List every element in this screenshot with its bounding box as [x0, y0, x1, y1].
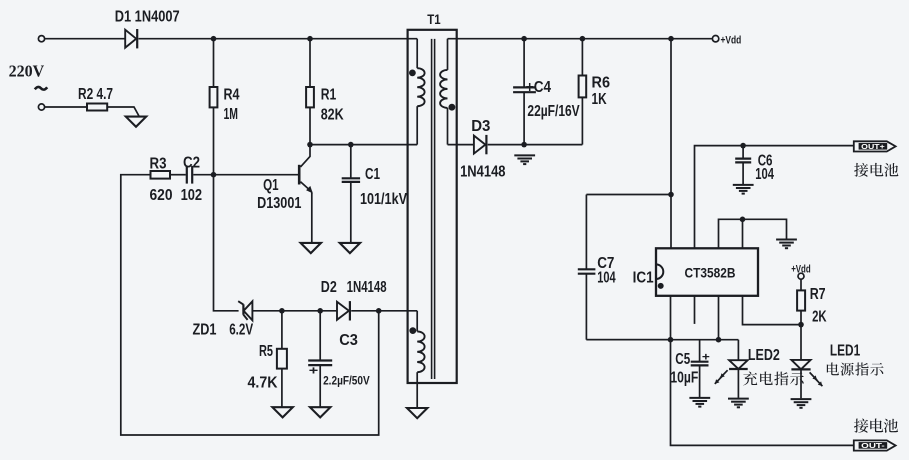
node junction IC gnd link [740, 217, 746, 223]
node junction R5 tap [279, 308, 285, 314]
node junction R7/LED1 [798, 322, 804, 328]
node junction C3 tap [317, 308, 323, 314]
label IC1 [633, 269, 654, 286]
wire R5 bottom [281, 369, 283, 408]
label 82K [321, 107, 344, 124]
label C6 [758, 152, 773, 169]
wire Vdd rail down to IC pin 8 [670, 39, 672, 249]
wire IC pin 3 down [718, 296, 720, 340]
node +Vdd terminal R7 [798, 273, 804, 279]
LED LED2 [715, 340, 748, 398]
label CT3582B [685, 265, 736, 280]
inductor T1 primary winding [417, 39, 424, 145]
svg-text:220V: 220V [9, 61, 45, 80]
svg-text:LED1: LED1 [830, 342, 860, 359]
label 6.2V [229, 321, 253, 338]
capacitor C1 [342, 145, 360, 243]
label chong-dian-zhi-shi (charging indicator) [743, 371, 804, 385]
resistor R7 [797, 290, 805, 310]
capacitor C7 [578, 195, 596, 340]
label 104 for C6 [755, 166, 774, 183]
svg-text:C5: C5 [675, 351, 690, 368]
node junction R6 top [580, 36, 586, 42]
resistor R1 [306, 87, 314, 107]
svg-text:R5: R5 [259, 343, 273, 360]
label R2 4.7 [78, 86, 113, 103]
wire AC bottom terminal to R2 [45, 106, 87, 108]
label ZD1 [193, 321, 217, 338]
svg-text:1N4148: 1N4148 [460, 164, 505, 181]
svg-text:104: 104 [755, 166, 774, 183]
node junction C6 tap [740, 143, 746, 149]
svg-text:R3: R3 [150, 156, 167, 173]
diode D1 [125, 29, 137, 48]
wire R7 bottom lead [800, 311, 802, 325]
label jie-dian-chi bottom (connect battery) [854, 419, 898, 433]
transistor Q1 [298, 145, 313, 243]
label C7 [597, 255, 614, 272]
inductor T1 secondary winding [440, 39, 447, 145]
svg-text:104: 104 [597, 269, 615, 286]
wire IC pin 1 down to gnd rail [670, 296, 672, 340]
wire R7 top lead [800, 279, 802, 290]
ground after R2 [126, 117, 146, 127]
label AC tilde [35, 87, 47, 90]
terminal OUT+ flag [854, 141, 896, 151]
wire collector node to T1 primary bottom [310, 144, 417, 146]
svg-text:T1: T1 [427, 11, 441, 27]
ground R5 [272, 407, 292, 417]
svg-text:CT3582B: CT3582B [685, 265, 736, 280]
svg-text:OUT+: OUT+ [861, 142, 885, 151]
svg-text:C1: C1 [365, 166, 380, 183]
wire R5 top [281, 311, 283, 349]
wire D1 cathode to transformer T1 primary top [139, 38, 418, 40]
svg-text:+C4: +C4 [526, 79, 551, 96]
label LED2 [748, 347, 780, 364]
ground C5 earth [689, 398, 710, 407]
label 220V [9, 61, 45, 80]
label C3 plus [309, 364, 319, 378]
label LED1 [830, 342, 860, 359]
transformer T1 outline box [408, 30, 457, 383]
label T1 [427, 11, 441, 27]
node +Vdd terminal [712, 36, 718, 42]
svg-text:4.7K: 4.7K [248, 375, 278, 392]
svg-text:D13001: D13001 [257, 195, 301, 212]
svg-text:+: + [309, 364, 319, 378]
svg-text:102: 102 [181, 187, 203, 204]
label R7 [810, 286, 826, 303]
label C5 [675, 351, 690, 368]
node AC input top terminal [38, 36, 44, 42]
resistor R3 [151, 171, 171, 179]
node T1 primary polarity dot [409, 70, 416, 77]
wire R4 top [213, 39, 215, 87]
svg-text:R7: R7 [810, 286, 826, 303]
transformer core lines [432, 39, 435, 379]
capacitor C5 [691, 340, 709, 398]
resistor R5 [277, 349, 287, 369]
label 104 for C7 [597, 269, 615, 286]
svg-text:OUT-: OUT- [861, 441, 885, 450]
wire C3 node to D2 anode [320, 310, 337, 312]
svg-text:R1: R1 [321, 87, 337, 104]
inductor T1 feedback winding [417, 311, 424, 408]
svg-text:ZD1: ZD1 [193, 321, 217, 338]
label +C4 [526, 79, 551, 96]
wire secondary top rail [448, 38, 713, 40]
wire OUT+ line [695, 146, 854, 249]
label 1N4148 for D2 [347, 279, 387, 296]
label R3 [150, 156, 167, 173]
label 4.7K [248, 375, 278, 392]
node junction C4 top [521, 36, 527, 42]
wire base node down to zener row [214, 175, 239, 311]
label C3 [339, 332, 358, 349]
ground C1 [340, 243, 360, 253]
node junction IC pin3/gnd bus [716, 337, 722, 343]
label C5 plus [702, 351, 710, 363]
svg-text:+Vdd: +Vdd [721, 35, 742, 47]
svg-text:IC1: IC1 [633, 269, 654, 286]
wire IC gnd pins link [719, 219, 787, 248]
label 22uF/16V [527, 103, 580, 120]
label dian-yuan-zhi-shi (power indicator) [827, 362, 884, 375]
ground IC earth [776, 240, 797, 249]
node junction C7 top tap [668, 192, 674, 198]
ground LED2 earth [728, 399, 749, 408]
svg-text:R4: R4 [224, 87, 240, 104]
svg-text:101/1kV: 101/1kV [360, 191, 407, 208]
resistor R6 [579, 76, 587, 98]
node AC input bottom terminal [38, 104, 44, 110]
wire R4 bottom to base node [213, 107, 215, 174]
label R5 [259, 343, 273, 360]
ground C3 [310, 407, 330, 417]
wire left feedback rail [121, 175, 379, 435]
op-amp IC1 CT3582B box [656, 248, 758, 295]
wire R6 bottom lead [581, 97, 583, 144]
label D1 1N4007 [115, 8, 180, 25]
label 1M [224, 106, 239, 123]
node IC1 pin1 marker dot [658, 283, 664, 289]
pin IC open stub [694, 296, 696, 324]
label 620 [150, 187, 173, 204]
node junction rail/gnd bus [668, 337, 674, 343]
svg-text:1K: 1K [592, 91, 607, 108]
wire R1 bottom / collector rail [309, 107, 311, 144]
svg-text:1N4148: 1N4148 [347, 279, 387, 296]
svg-text:C3: C3 [339, 332, 358, 349]
wire IC pin 4 to LED1 node [743, 296, 802, 325]
wire R2 to ground [107, 107, 139, 117]
terminal OUT- flag [854, 440, 896, 450]
wire analog gnd bus [586, 339, 738, 341]
svg-text:C2: C2 [183, 154, 200, 171]
diode D2 [337, 301, 350, 320]
wire OUT- rail [671, 340, 854, 446]
ground Q1 emitter [301, 243, 321, 253]
svg-text:620: 620 [150, 187, 173, 204]
wire R1 top [309, 39, 311, 87]
ground C6 earth [733, 185, 754, 194]
node junction top wire / R1 [307, 36, 313, 42]
wire ZD1 to R5 node [252, 310, 282, 312]
svg-text:LED2: LED2 [748, 347, 780, 364]
svg-text:D1 1N4007: D1 1N4007 [115, 8, 180, 25]
ground T1 feedback winding [407, 408, 427, 418]
svg-text:Q1: Q1 [263, 177, 279, 194]
node junction C4 bottom [521, 142, 527, 148]
node T1 feedback polarity dot [409, 327, 416, 334]
svg-text:22µF/16V: 22µF/16V [527, 103, 580, 120]
svg-text:2.2µF/50V: 2.2µF/50V [323, 374, 370, 388]
label 1N4148 for D3 [460, 164, 505, 181]
label C2 [183, 154, 200, 171]
zener diode ZD1 [238, 301, 252, 320]
diode D3 [474, 135, 487, 154]
svg-text:82K: 82K [321, 107, 344, 124]
label Q1 [263, 177, 279, 194]
svg-text:2K: 2K [812, 309, 827, 326]
node junction base wire / R4 [211, 172, 217, 178]
wire D3 cathode to C4 ground node [488, 144, 583, 146]
resistor R2 [87, 104, 107, 111]
node junction collector wire / R1 [307, 142, 313, 148]
wire D2 cathode to T1 feedback winding [351, 310, 417, 312]
wire R3 to C2 [170, 174, 186, 176]
label D13001 [257, 195, 301, 212]
wire IC pin 6 up [742, 219, 744, 248]
wire R5 node to C3 node [282, 310, 320, 312]
label R6 [592, 74, 611, 91]
svg-text:D3: D3 [471, 118, 490, 135]
label 101/1kV [360, 191, 407, 208]
wire C2 to Q1 base [193, 174, 298, 176]
label 10uF [670, 370, 698, 387]
ground LED1 earth [791, 399, 812, 408]
node junction collector wire / C1 [348, 142, 354, 148]
capacitor C6 [735, 146, 751, 185]
label +Vdd for R7 [791, 264, 811, 276]
label C1 [365, 166, 380, 183]
label D3 [471, 118, 490, 135]
wire AC top terminal to D1 anode [45, 38, 126, 40]
label jie-dian-chi top (connect battery) [854, 163, 898, 177]
label 102 [181, 187, 203, 204]
ground C4 earth [514, 155, 535, 164]
svg-text:10µF: 10µF [670, 370, 698, 387]
wire C7 top link [586, 194, 671, 196]
wire T1 secondary bottom to D3 [448, 144, 474, 146]
resistor R4 [210, 87, 218, 107]
node T1 secondary polarity dot [449, 104, 456, 111]
capacitor C4 [513, 39, 536, 145]
node junction Vdd rail [668, 36, 674, 42]
label 1K [592, 91, 607, 108]
label 2K [812, 309, 827, 326]
wire C7 bottom link [586, 339, 670, 341]
label 2.2uF/50V [323, 374, 370, 388]
node junction top wire / R4 [211, 36, 217, 42]
svg-text:D2: D2 [321, 279, 337, 296]
svg-text:1M: 1M [224, 106, 239, 123]
capacitor C3 [308, 311, 332, 407]
label R4 [224, 87, 240, 104]
svg-text:R2 4.7: R2 4.7 [78, 86, 113, 103]
svg-text:+: + [702, 351, 710, 363]
label +Vdd top [721, 35, 742, 47]
node junction feedback loop [376, 308, 382, 314]
wire R6 top lead [581, 39, 583, 76]
label R1 [321, 87, 337, 104]
label D2 [321, 279, 337, 296]
svg-text:6.2V: 6.2V [229, 321, 253, 338]
capacitor C2 [187, 166, 192, 184]
LED LED1 [791, 325, 822, 399]
svg-text:R6: R6 [592, 74, 611, 91]
